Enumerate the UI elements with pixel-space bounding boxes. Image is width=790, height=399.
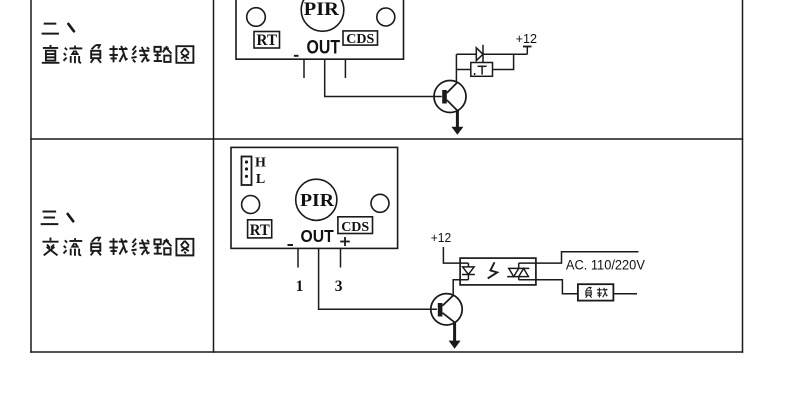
wire collector up to opto LED: [453, 280, 468, 296]
svg-text:+12: +12: [516, 31, 537, 46]
load output wire: [613, 293, 637, 295]
RT box: [254, 32, 280, 50]
wire triac MT2 to AC line: [519, 252, 639, 263]
table row separator: [30, 138, 743, 140]
wire branch to relay coil: [456, 69, 470, 71]
svg-text:CDS: CDS: [341, 220, 369, 235]
plus label: [340, 237, 350, 246]
svg-text:OUT: OUT: [301, 226, 334, 246]
L label: [256, 172, 265, 187]
RT box: [248, 220, 272, 239]
pin 3 stub: [340, 248, 342, 267]
wire top rail to diode: [456, 53, 476, 55]
svg-text:+12: +12: [431, 230, 452, 245]
relay coil K1: [471, 63, 493, 77]
wire triac MT1 to load: [519, 280, 578, 294]
label row3: 三、: [41, 212, 74, 225]
right mounting hole: [371, 194, 389, 212]
transistor Q2: [431, 294, 462, 325]
svg-text:PIR: PIR: [304, 0, 339, 20]
diode D1: [476, 45, 483, 63]
pin label 1: [296, 278, 304, 295]
AC 110/220V label: [566, 258, 645, 273]
pin 1 stub: [297, 248, 299, 267]
wire OUT pin to transistor base: [325, 59, 442, 96]
svg-text:3: 3: [335, 278, 343, 295]
PIR lens circle: [301, 0, 344, 31]
svg-text:H: H: [255, 156, 266, 171]
PIR label: [304, 0, 339, 20]
+12 supply terminal: [516, 31, 537, 54]
table right border: [742, 0, 744, 353]
emitter ground arrow: [449, 322, 461, 349]
svg-text:L: L: [256, 172, 265, 187]
wire collector up: [455, 54, 457, 81]
pin + (right stub): [344, 59, 346, 78]
optocoupler U1 box: [460, 258, 536, 285]
right mounting hole: [377, 8, 395, 26]
svg-text:PIR: PIR: [300, 190, 335, 210]
opto triac: [507, 263, 529, 280]
wire diode to +12: [483, 53, 527, 55]
table left border: [30, 0, 32, 353]
CDS box: [338, 217, 373, 235]
H label: [255, 156, 266, 171]
pin label 3: [335, 278, 343, 295]
left mounting hole: [247, 8, 266, 27]
load box 负载: [578, 284, 614, 300]
wire OUT pin 2 to transistor base: [319, 248, 437, 309]
transistor Q1: [434, 81, 466, 113]
opto light symbol: [488, 262, 498, 278]
PIR label: [300, 190, 335, 210]
opto LED: [462, 263, 475, 280]
emitter ground arrow: [451, 111, 463, 135]
+12 supply label row2: [431, 230, 452, 245]
OUT label: [307, 38, 341, 59]
svg-text:RT: RT: [250, 222, 271, 239]
svg-text:AC. 110/220V: AC. 110/220V: [566, 258, 645, 273]
minus label: [294, 55, 299, 57]
label row2: 直流负载线路图: [42, 45, 194, 63]
svg-text:1: 1: [296, 278, 304, 295]
table bottom border: [30, 351, 743, 353]
svg-text:CDS: CDS: [346, 32, 374, 47]
PIR module board U3: [231, 147, 398, 248]
PIR lens circle: [296, 179, 337, 220]
svg-text:RT: RT: [257, 32, 278, 49]
OUT label: [301, 226, 334, 246]
minus label: [288, 244, 294, 246]
jumper header J1: [242, 157, 252, 186]
label row3: 交流负载线路图: [42, 238, 193, 256]
wire +12 to opto LED anode: [443, 247, 468, 263]
table column separator: [213, 0, 215, 353]
label row2: 二、: [42, 24, 74, 34]
pin - (left stub): [303, 59, 305, 78]
left mounting hole: [242, 196, 260, 214]
PIR module board U2 (cropped at top): [236, 0, 404, 59]
svg-text:OUT: OUT: [307, 38, 341, 59]
CDS box: [343, 31, 378, 47]
wire relay to +12 rail: [493, 54, 514, 69]
